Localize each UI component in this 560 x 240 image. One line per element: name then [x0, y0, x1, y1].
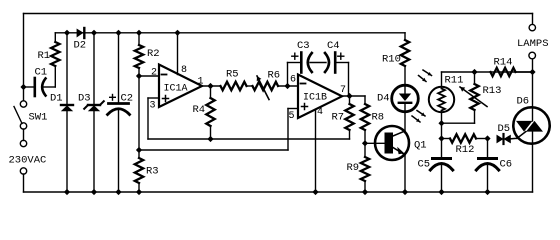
svg-text:D1: D1 [50, 93, 63, 105]
svg-text:C1: C1 [35, 67, 48, 79]
svg-text:R3: R3 [146, 166, 159, 178]
svg-text:R10: R10 [382, 54, 401, 66]
svg-text:2: 2 [151, 68, 157, 79]
svg-text:8: 8 [181, 65, 187, 76]
svg-text:5: 5 [289, 111, 295, 122]
svg-text:R12: R12 [456, 144, 475, 156]
svg-text:D6: D6 [517, 96, 530, 108]
svg-text:7: 7 [340, 85, 346, 96]
svg-text:R5: R5 [226, 69, 239, 81]
svg-text:C5: C5 [418, 159, 431, 171]
svg-text:R2: R2 [147, 48, 160, 60]
svg-text:R6: R6 [268, 70, 281, 82]
svg-text:4: 4 [317, 107, 323, 118]
svg-text:C2: C2 [121, 93, 134, 105]
svg-text:6: 6 [290, 75, 296, 86]
svg-text:R14: R14 [494, 57, 513, 69]
svg-text:R1: R1 [38, 50, 51, 62]
svg-text:C6: C6 [500, 159, 513, 171]
svg-text:230VAC: 230VAC [9, 155, 47, 167]
svg-text:R13: R13 [483, 85, 502, 97]
svg-text:R11: R11 [445, 75, 464, 87]
svg-text:D2: D2 [74, 40, 87, 52]
svg-text:R9: R9 [347, 162, 360, 174]
svg-text:D5: D5 [498, 123, 511, 135]
svg-text:IC1B: IC1B [303, 93, 327, 104]
svg-text:R8: R8 [372, 112, 385, 124]
svg-text:C4: C4 [327, 40, 340, 52]
svg-text:R4: R4 [193, 104, 206, 116]
svg-text:R7: R7 [332, 112, 345, 124]
svg-text:D3: D3 [78, 93, 91, 105]
svg-text:SW1: SW1 [29, 112, 48, 124]
svg-text:IC1A: IC1A [164, 84, 188, 95]
svg-text:LAMPS: LAMPS [517, 38, 549, 50]
svg-text:Q1: Q1 [414, 140, 427, 152]
svg-text:C3: C3 [297, 40, 310, 52]
svg-text:D4: D4 [377, 93, 390, 105]
svg-text:3: 3 [150, 101, 156, 112]
